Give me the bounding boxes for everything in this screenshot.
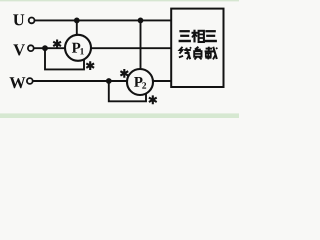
asterisk P1 current terminal: [53, 40, 61, 49]
load label line1 char 三 second: [205, 31, 217, 41]
load label line2 char 线: [179, 47, 191, 60]
wattmeter P2: [127, 69, 153, 95]
load label line2 char 载: [205, 47, 218, 60]
node U-P1 junction: [74, 18, 80, 24]
terminal V: [28, 45, 34, 51]
wire P1 voltage loop: [45, 48, 84, 69]
terminal label V: [13, 44, 25, 55]
bottom green band: [0, 113, 239, 118]
node W junction: [106, 78, 112, 84]
load label line1 char 相: [192, 30, 204, 43]
wire U line: [35, 19, 171, 21]
terminal U: [29, 18, 35, 24]
node U-P2 junction: [138, 18, 144, 24]
top green band: [0, 0, 239, 2]
wire V left segment: [34, 47, 65, 49]
terminal label U: [13, 14, 24, 25]
load box three-phase three-wire load: [171, 9, 223, 87]
asterisk P1 voltage terminal: [86, 61, 94, 70]
terminal label W: [9, 77, 25, 88]
node V junction: [42, 45, 48, 51]
asterisk P2 voltage terminal: [149, 95, 157, 104]
wire P1 voltage tap from U line: [76, 20, 78, 35]
wire P2 voltage loop: [109, 81, 146, 101]
wire W right segment: [152, 80, 171, 82]
load label line2 char 负: [194, 47, 201, 60]
wire V right segment: [91, 47, 171, 49]
wire P2 voltage tap from U line: [140, 20, 142, 69]
wire W left segment: [33, 80, 128, 82]
wattmeter P1: [65, 35, 91, 61]
load label line1 char 三: [179, 31, 191, 41]
asterisk P2 current terminal: [120, 69, 128, 78]
terminal W: [27, 78, 33, 84]
